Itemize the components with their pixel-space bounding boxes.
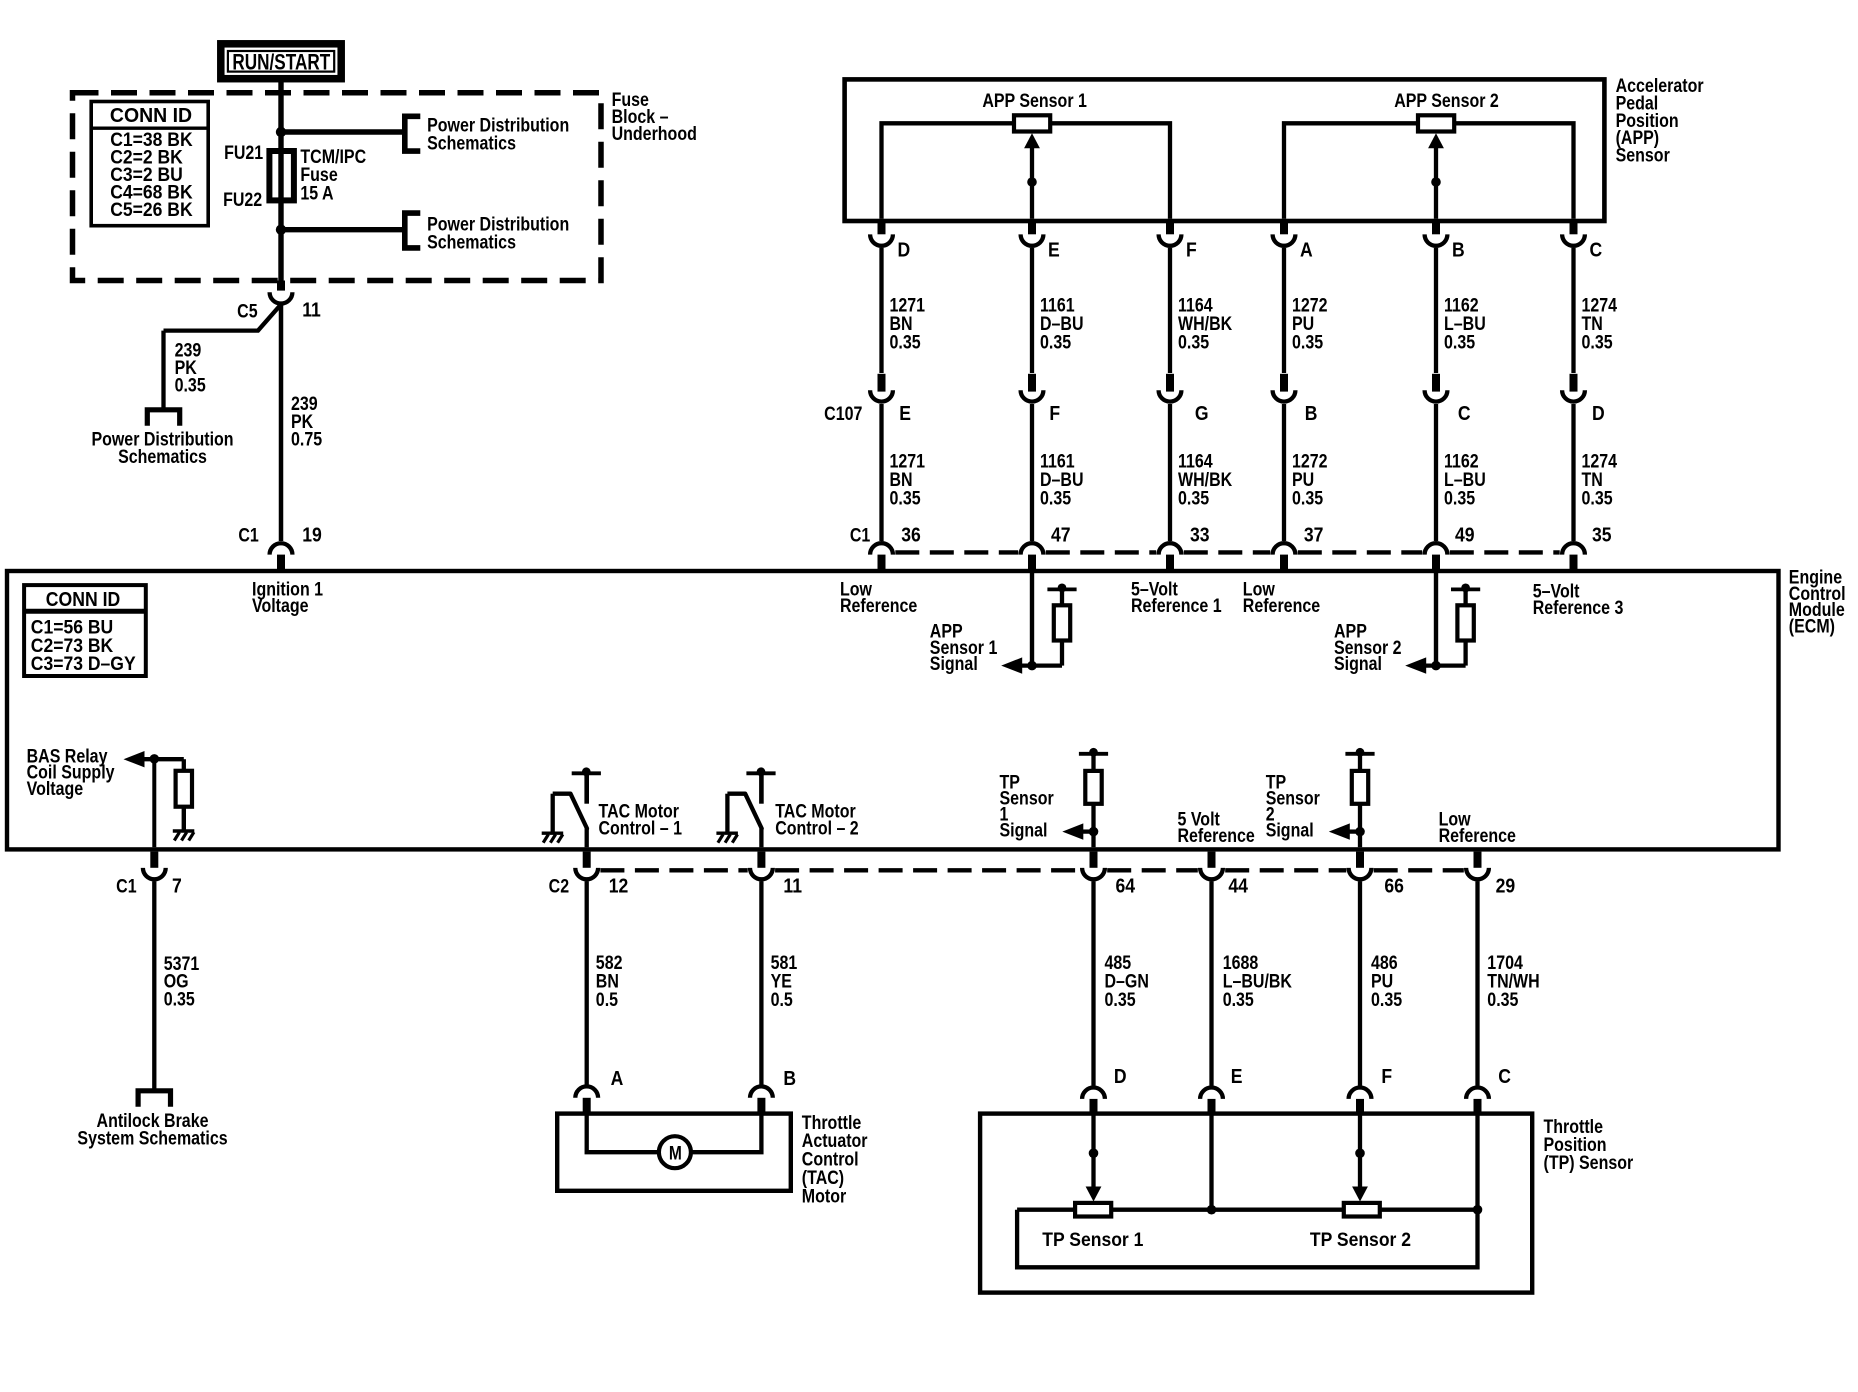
svg-text:Signal: Signal [1266,819,1314,841]
svg-text:0.35: 0.35 [1487,988,1518,1010]
svg-text:C5: C5 [237,300,258,322]
svg-text:Signal: Signal [1334,653,1382,675]
svg-text:0.35: 0.35 [1292,487,1323,509]
svg-text:Reference: Reference [1178,825,1255,847]
svg-text:TP Sensor 1: TP Sensor 1 [1042,1228,1143,1250]
svg-text:E: E [1048,239,1060,261]
svg-text:19: 19 [302,524,322,546]
svg-text:C1: C1 [850,524,871,546]
svg-text:Schematics: Schematics [118,445,207,467]
svg-text:C1: C1 [116,875,137,897]
svg-text:APP Sensor 2: APP Sensor 2 [1394,89,1499,111]
svg-text:37: 37 [1304,524,1324,546]
svg-text:0.35: 0.35 [1223,988,1254,1010]
svg-text:0.35: 0.35 [1292,331,1323,353]
svg-text:C107: C107 [824,403,862,425]
svg-text:0.5: 0.5 [771,988,793,1010]
svg-text:0.35: 0.35 [1178,487,1209,509]
svg-text:A: A [1300,239,1313,261]
svg-text:0.5: 0.5 [596,988,618,1010]
svg-text:C2: C2 [549,875,570,897]
svg-text:FU21: FU21 [224,142,263,164]
svg-text:Sensor: Sensor [1616,144,1670,166]
svg-text:7: 7 [172,874,182,896]
svg-text:F: F [1049,402,1060,424]
svg-text:C: C [1590,239,1603,261]
svg-text:Signal: Signal [1000,819,1048,841]
svg-text:C: C [1458,402,1471,424]
svg-text:D: D [898,239,911,261]
svg-text:Voltage: Voltage [27,777,84,799]
svg-text:0.35: 0.35 [175,374,206,396]
svg-text:0.35: 0.35 [1040,331,1071,353]
svg-text:Schematics: Schematics [427,231,516,253]
svg-text:A: A [611,1067,624,1089]
svg-text:Reference: Reference [1439,825,1516,847]
svg-text:49: 49 [1455,524,1475,546]
svg-text:Reference: Reference [1243,594,1320,616]
svg-text:G: G [1195,402,1209,424]
svg-text:33: 33 [1190,524,1210,546]
svg-text:0.35: 0.35 [1178,331,1209,353]
svg-text:F: F [1186,239,1197,261]
svg-text:0.35: 0.35 [164,988,195,1010]
svg-text:12: 12 [609,874,629,896]
svg-text:Control – 2: Control – 2 [775,817,859,839]
svg-text:Control – 1: Control – 1 [599,817,683,839]
svg-text:CONN ID: CONN ID [110,104,192,127]
svg-text:0.35: 0.35 [890,331,921,353]
svg-text:B: B [1452,239,1465,261]
svg-text:RUN/START: RUN/START [232,50,330,75]
svg-text:FU22: FU22 [223,189,262,211]
svg-text:Motor: Motor [802,1185,846,1207]
svg-text:Reference: Reference [840,594,917,616]
svg-text:11: 11 [302,298,321,320]
svg-text:0.35: 0.35 [1371,988,1402,1010]
svg-text:Schematics: Schematics [427,132,516,154]
svg-text:Reference 1: Reference 1 [1131,594,1222,616]
svg-text:Underhood: Underhood [612,122,697,144]
svg-text:C5=26 BK: C5=26 BK [110,198,193,220]
svg-text:0.35: 0.35 [1444,487,1475,509]
svg-text:15 A: 15 A [300,182,333,204]
svg-text:47: 47 [1051,524,1071,546]
svg-text:CONN ID: CONN ID [46,589,120,612]
svg-text:B: B [783,1067,796,1089]
svg-text:E: E [899,402,911,424]
svg-text:C: C [1498,1065,1511,1087]
svg-text:D: D [1592,402,1605,424]
svg-text:29: 29 [1496,874,1516,896]
svg-text:E: E [1231,1065,1243,1087]
svg-text:Reference 3: Reference 3 [1533,596,1624,618]
svg-text:B: B [1305,402,1318,424]
svg-text:(ECM): (ECM) [1789,615,1835,637]
svg-text:APP Sensor 1: APP Sensor 1 [982,89,1087,111]
svg-text:36: 36 [901,524,921,546]
svg-text:0.75: 0.75 [291,428,322,450]
svg-text:11: 11 [783,874,802,896]
svg-text:35: 35 [1592,524,1612,546]
svg-text:64: 64 [1116,874,1136,896]
svg-text:C1: C1 [238,524,259,546]
svg-text:44: 44 [1228,874,1248,896]
svg-text:(TP) Sensor: (TP) Sensor [1544,1152,1634,1174]
svg-text:Signal: Signal [930,653,978,675]
svg-text:C3=73 D–GY: C3=73 D–GY [31,652,136,674]
svg-text:0.35: 0.35 [1582,487,1613,509]
svg-text:F: F [1381,1065,1392,1087]
svg-text:M: M [669,1142,682,1164]
svg-text:0.35: 0.35 [890,487,921,509]
svg-text:66: 66 [1384,874,1404,896]
svg-text:D: D [1114,1065,1127,1087]
svg-text:Voltage: Voltage [252,594,309,616]
svg-text:0.35: 0.35 [1582,331,1613,353]
svg-text:System Schematics: System Schematics [77,1127,227,1149]
svg-text:TP Sensor 2: TP Sensor 2 [1310,1228,1411,1250]
svg-text:0.35: 0.35 [1444,331,1475,353]
svg-text:0.35: 0.35 [1040,487,1071,509]
svg-text:0.35: 0.35 [1105,988,1136,1010]
